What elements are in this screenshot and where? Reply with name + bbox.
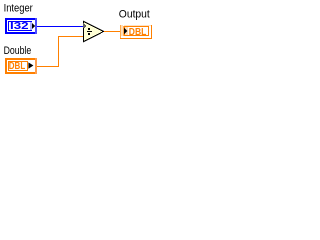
coercion dot: [83, 23, 86, 28]
svg-text:I32: I32: [10, 21, 29, 32]
svg-text:DBL: DBL: [129, 27, 147, 38]
control terminal I32: [5, 18, 37, 34]
control terminal DBL: [5, 58, 37, 74]
indicator terminal DBL (output): [120, 25, 152, 39]
svg-text:Double: Double: [4, 45, 32, 57]
I32 arrow: [32, 23, 35, 29]
divide function triangle: [84, 21, 104, 41]
wire divide to output (orange): [104, 31, 120, 32]
DBL arrow: [28, 62, 33, 68]
svg-text:Output: Output: [119, 8, 150, 20]
background: [0, 0, 162, 84]
svg-text:Integer: Integer: [4, 2, 33, 14]
svg-text:DBL: DBL: [9, 61, 25, 72]
I32 inner frame: [8, 21, 32, 31]
divide symbol: [87, 28, 92, 35]
wire I32 to divide (blue): [37, 26, 83, 27]
DBL inner frame: [9, 62, 28, 71]
wire DBL to divide (orange), three segments: [37, 36, 83, 67]
